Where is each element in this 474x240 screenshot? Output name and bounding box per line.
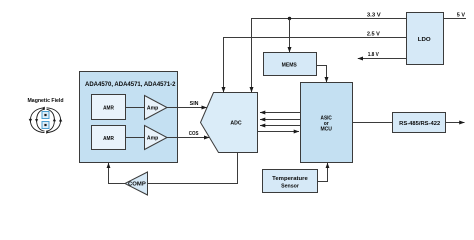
svg-text:2.5 V: 2.5 V: [367, 31, 380, 37]
svg-text:Temperature: Temperature: [272, 176, 308, 182]
wire 3.3V branch to MEMS: [289, 19, 291, 53]
svg-text:LDO: LDO: [418, 37, 432, 43]
magnetic field symbol field lines: [30, 108, 60, 133]
magnetic field symbol arrowheads: [29, 107, 63, 134]
svg-text:COMP: COMP: [128, 182, 147, 188]
svg-text:Sensor: Sensor: [281, 183, 300, 189]
junction 3.3V node: [288, 17, 291, 20]
wire AMR1 to Amp1: [126, 107, 145, 109]
svg-text:AMR: AMR: [103, 136, 114, 142]
wire AMR2 to Amp2: [126, 137, 145, 139]
wire 1.8V output: [358, 58, 407, 60]
svg-text:RS-485/RS-422: RS-485/RS-422: [399, 121, 440, 127]
wire COMP to ADA: [109, 163, 126, 184]
block ASIC or MCU: [301, 83, 353, 163]
block MEMS: [264, 53, 317, 76]
amplifier Amp2: [145, 126, 168, 150]
svg-text:5 V: 5 V: [457, 12, 466, 18]
svg-text:COS: COS: [189, 131, 199, 137]
svg-text:AMR: AMR: [103, 105, 114, 111]
svg-text:MCU: MCU: [320, 127, 332, 133]
converter ADC: [201, 93, 258, 153]
svg-text:ADA4570, ADA4571, ADA4571-2: ADA4570, ADA4571, ADA4571-2: [85, 81, 176, 88]
wire 2.5V rail: [224, 38, 407, 93]
svg-text:1.8 V: 1.8 V: [368, 52, 379, 58]
block RS-485/RS-422: [393, 113, 446, 133]
svg-text:Amp: Amp: [147, 106, 159, 112]
magnetic sensor element squares: [42, 112, 49, 129]
svg-text:Magnetic Field: Magnetic Field: [27, 98, 63, 104]
wire SPI control 1: [260, 112, 301, 114]
wire SPI data: [258, 131, 300, 133]
amplifier Amp1: [145, 96, 168, 120]
svg-text:Amp: Amp: [147, 136, 159, 142]
svg-text:3.3 V: 3.3 V: [367, 12, 381, 18]
wire Temperature Sensor to ASIC: [318, 163, 328, 182]
wire 3.3V rail: [252, 19, 407, 93]
block AMR 1: [92, 95, 126, 120]
wire ADC to COMP: [148, 153, 238, 184]
wire RS-485 output: [446, 122, 465, 124]
regulator LDO: [407, 13, 444, 65]
block Temperature Sensor: [263, 170, 318, 193]
wire SIN to ADC: [167, 107, 207, 109]
wire SPI control 3: [260, 125, 301, 127]
wire SPI control 2: [260, 119, 301, 121]
svg-text:SIN: SIN: [190, 101, 199, 107]
wire 5V input: [444, 18, 467, 20]
svg-text:ADC: ADC: [230, 120, 242, 126]
wire COS to ADC: [167, 137, 209, 139]
block ADA4570/ADA4571 container: [80, 72, 178, 163]
wire ASIC to RS-485: [353, 122, 393, 124]
svg-text:MEMS: MEMS: [282, 62, 297, 68]
wire MEMS to ASIC: [317, 66, 327, 83]
block AMR 2: [92, 126, 126, 150]
comparator COMP: [125, 172, 148, 195]
